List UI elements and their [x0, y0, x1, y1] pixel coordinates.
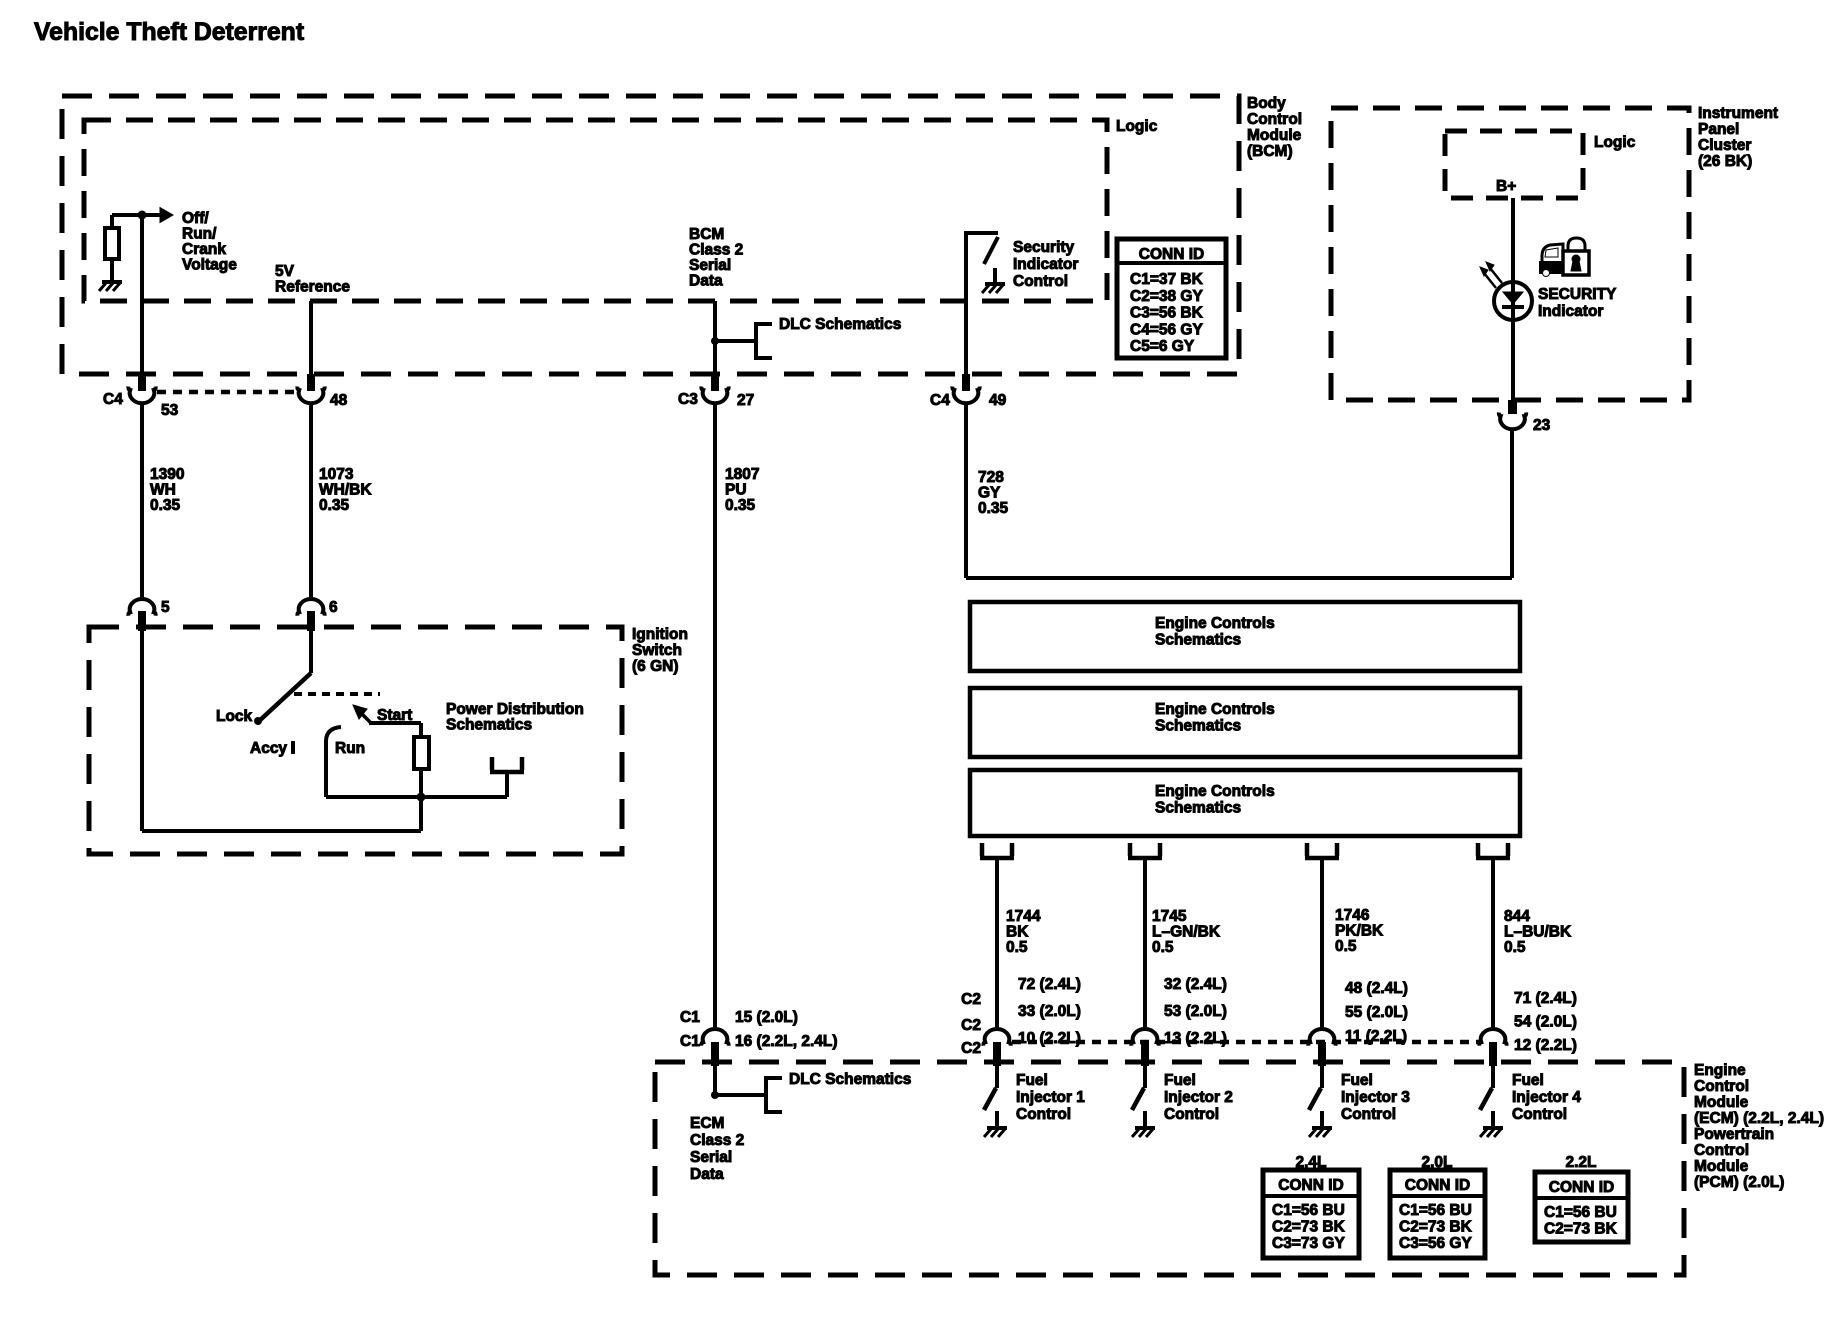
svg-text:Schematics: Schematics [1155, 800, 1241, 817]
svg-text:C3=56 BK: C3=56 BK [1130, 305, 1204, 322]
svg-text:C2: C2 [961, 991, 981, 1008]
svg-text:Logic: Logic [1116, 118, 1158, 135]
svg-text:Serial: Serial [689, 257, 731, 274]
svg-text:Indicator: Indicator [1013, 256, 1078, 273]
svg-text:0.35: 0.35 [319, 497, 350, 514]
svg-text:C2=38 GY: C2=38 GY [1130, 288, 1203, 305]
svg-text:Module: Module [1694, 1094, 1749, 1111]
svg-text:PU: PU [725, 482, 747, 499]
svg-text:DLC Schematics: DLC Schematics [789, 1071, 911, 1088]
svg-text:23: 23 [1533, 417, 1551, 434]
svg-text:Module: Module [1247, 127, 1302, 144]
svg-text:ECM: ECM [690, 1115, 724, 1132]
svg-text:Control: Control [1341, 1106, 1396, 1123]
svg-text:WH: WH [150, 482, 176, 499]
svg-text:Power Distribution: Power Distribution [446, 701, 584, 718]
svg-text:PK/BK: PK/BK [1335, 923, 1384, 940]
svg-text:C2: C2 [961, 1017, 981, 1034]
svg-text:Instrument: Instrument [1698, 105, 1778, 122]
svg-text:48: 48 [330, 392, 348, 409]
svg-text:C1=37 BK: C1=37 BK [1130, 271, 1204, 288]
svg-text:(6 GN): (6 GN) [632, 658, 679, 675]
svg-text:C4: C4 [930, 392, 950, 409]
svg-text:0.5: 0.5 [1335, 938, 1357, 955]
svg-text:L–BU/BK: L–BU/BK [1504, 924, 1572, 941]
svg-text:C1=56 BU: C1=56 BU [1544, 1204, 1617, 1221]
svg-text:0.5: 0.5 [1504, 939, 1526, 956]
svg-text:Run: Run [335, 740, 365, 757]
svg-text:CONN ID: CONN ID [1405, 1177, 1470, 1194]
svg-text:C1: C1 [680, 1009, 700, 1026]
svg-text:728: 728 [978, 469, 1004, 486]
svg-text:13 (2.2L): 13 (2.2L) [1164, 1030, 1227, 1047]
svg-text:Engine Controls: Engine Controls [1155, 701, 1275, 718]
svg-text:WH/BK: WH/BK [319, 482, 372, 499]
svg-text:Body: Body [1247, 95, 1286, 112]
svg-text:5: 5 [161, 599, 170, 616]
svg-text:55 (2.0L): 55 (2.0L) [1345, 1004, 1408, 1021]
svg-text:Injector 2: Injector 2 [1164, 1089, 1233, 1106]
svg-text:844: 844 [1504, 908, 1530, 925]
svg-text:C2=73 BK: C2=73 BK [1399, 1219, 1473, 1236]
svg-text:C5=6 GY: C5=6 GY [1130, 338, 1195, 355]
svg-text:2.2L: 2.2L [1565, 1154, 1596, 1171]
svg-text:(ECM) (2.2L, 2.4L): (ECM) (2.2L, 2.4L) [1694, 1110, 1824, 1127]
svg-text:5V: 5V [275, 263, 295, 280]
svg-text:Logic: Logic [1594, 134, 1636, 151]
svg-text:Fuel: Fuel [1164, 1072, 1196, 1089]
svg-text:Class 2: Class 2 [689, 242, 743, 259]
svg-text:Control: Control [1013, 273, 1068, 290]
svg-text:6: 6 [329, 599, 338, 616]
svg-text:Engine Controls: Engine Controls [1155, 615, 1275, 632]
svg-text:(26 BK): (26 BK) [1698, 153, 1752, 170]
svg-text:SECURITY: SECURITY [1538, 286, 1617, 303]
svg-text:72 (2.4L): 72 (2.4L) [1018, 976, 1081, 993]
svg-text:49: 49 [989, 392, 1007, 409]
svg-text:Schematics: Schematics [446, 717, 532, 734]
svg-text:C2=73 BK: C2=73 BK [1272, 1219, 1346, 1236]
svg-text:Vehicle Theft Deterrent: Vehicle Theft Deterrent [34, 19, 304, 46]
svg-text:0.35: 0.35 [725, 497, 756, 514]
svg-text:(BCM): (BCM) [1247, 143, 1293, 160]
svg-text:C3=73 GY: C3=73 GY [1272, 1235, 1345, 1252]
svg-text:10 (2.2L): 10 (2.2L) [1018, 1030, 1081, 1047]
svg-text:Class 2: Class 2 [690, 1132, 744, 1149]
svg-text:Lock: Lock [216, 708, 253, 725]
svg-text:Ignition: Ignition [632, 626, 688, 643]
svg-text:Control: Control [1512, 1106, 1567, 1123]
svg-text:Panel: Panel [1698, 121, 1739, 138]
svg-text:C3: C3 [678, 391, 698, 408]
svg-text:BCM: BCM [689, 226, 724, 243]
svg-text:48 (2.4L): 48 (2.4L) [1345, 980, 1408, 997]
svg-text:Injector 4: Injector 4 [1512, 1089, 1581, 1106]
svg-text:Control: Control [1164, 1106, 1219, 1123]
svg-text:Off/: Off/ [182, 210, 209, 227]
svg-text:Schematics: Schematics [1155, 632, 1241, 649]
svg-text:Control: Control [1694, 1078, 1749, 1095]
svg-text:Indicator: Indicator [1538, 303, 1603, 320]
svg-text:Fuel: Fuel [1016, 1072, 1048, 1089]
svg-text:Schematics: Schematics [1155, 718, 1241, 735]
svg-text:33 (2.0L): 33 (2.0L) [1018, 1003, 1081, 1020]
svg-text:Engine: Engine [1694, 1062, 1746, 1079]
svg-text:Accy: Accy [250, 740, 287, 757]
svg-text:27: 27 [737, 392, 754, 409]
svg-text:C1: C1 [680, 1033, 700, 1050]
svg-text:B+: B+ [1496, 178, 1516, 195]
svg-text:1073: 1073 [319, 466, 354, 483]
svg-text:54 (2.0L): 54 (2.0L) [1514, 1014, 1577, 1031]
svg-text:1744: 1744 [1006, 908, 1041, 925]
svg-text:L–GN/BK: L–GN/BK [1152, 924, 1221, 941]
svg-text:16 (2.2L, 2.4L): 16 (2.2L, 2.4L) [735, 1033, 838, 1050]
svg-text:Voltage: Voltage [182, 257, 237, 274]
svg-text:Control: Control [1247, 111, 1302, 128]
svg-text:Data: Data [689, 273, 723, 290]
svg-text:Injector 1: Injector 1 [1016, 1089, 1085, 1106]
svg-text:32 (2.4L): 32 (2.4L) [1164, 976, 1227, 993]
svg-text:Data: Data [690, 1166, 724, 1183]
svg-text:1746: 1746 [1335, 907, 1370, 924]
svg-text:Serial: Serial [690, 1149, 732, 1166]
svg-text:C2: C2 [961, 1040, 981, 1057]
svg-text:CONN ID: CONN ID [1139, 246, 1204, 263]
svg-text:0.35: 0.35 [978, 500, 1009, 517]
svg-text:CONN ID: CONN ID [1278, 1177, 1343, 1194]
svg-text:Fuel: Fuel [1512, 1072, 1544, 1089]
svg-text:Control: Control [1016, 1106, 1071, 1123]
svg-text:CONN ID: CONN ID [1549, 1179, 1614, 1196]
svg-text:C3=56 GY: C3=56 GY [1399, 1235, 1472, 1252]
svg-text:Fuel: Fuel [1341, 1072, 1373, 1089]
svg-text:71 (2.4L): 71 (2.4L) [1514, 990, 1577, 1007]
svg-text:53: 53 [161, 402, 179, 419]
svg-text:Module: Module [1694, 1158, 1749, 1175]
svg-text:Injector 3: Injector 3 [1341, 1089, 1410, 1106]
svg-text:BK: BK [1006, 924, 1029, 941]
svg-text:12 (2.2L): 12 (2.2L) [1514, 1037, 1577, 1054]
svg-text:Control: Control [1694, 1142, 1749, 1159]
svg-text:C2=73 BK: C2=73 BK [1544, 1221, 1618, 1238]
svg-text:1745: 1745 [1152, 908, 1187, 925]
svg-text:Security: Security [1013, 239, 1075, 256]
svg-text:Run/: Run/ [182, 226, 217, 243]
svg-text:C4=56 GY: C4=56 GY [1130, 321, 1203, 338]
svg-text:C1=56 BU: C1=56 BU [1399, 1202, 1472, 1219]
svg-text:C4: C4 [103, 391, 123, 408]
svg-text:(PCM) (2.0L): (PCM) (2.0L) [1694, 1174, 1784, 1191]
svg-text:DLC Schematics: DLC Schematics [779, 316, 901, 333]
svg-text:Crank: Crank [182, 241, 226, 258]
svg-text:53 (2.0L): 53 (2.0L) [1164, 1003, 1227, 1020]
svg-text:Switch: Switch [632, 642, 682, 659]
svg-text:Reference: Reference [275, 279, 350, 296]
svg-text:0.5: 0.5 [1006, 939, 1028, 956]
svg-text:GY: GY [978, 485, 1001, 502]
svg-text:Cluster: Cluster [1698, 137, 1751, 154]
svg-text:1807: 1807 [725, 466, 759, 483]
svg-text:Engine Controls: Engine Controls [1155, 783, 1275, 800]
svg-text:15 (2.0L): 15 (2.0L) [735, 1009, 798, 1026]
svg-text:C1=56 BU: C1=56 BU [1272, 1202, 1345, 1219]
svg-text:0.35: 0.35 [150, 497, 181, 514]
svg-text:0.5: 0.5 [1152, 939, 1174, 956]
svg-text:1390: 1390 [150, 466, 184, 483]
svg-text:Powertrain: Powertrain [1694, 1126, 1774, 1143]
